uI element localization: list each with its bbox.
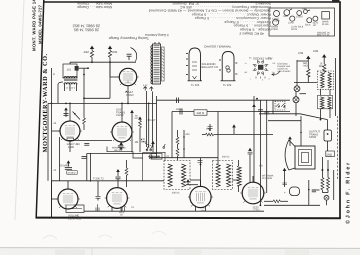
svg-text:COND: COND (271, 28, 278, 31)
wires down from T2 (146, 91, 148, 147)
bottom right wires (264, 204, 320, 206)
output transformer T6 (213, 161, 233, 190)
svg-text:CONV: CONV (273, 20, 280, 23)
svg-text:CONT: CONT (152, 156, 158, 159)
right vertical wires (253, 96, 255, 182)
capacitor C24 with arrow (248, 148, 252, 151)
svg-text:Mixer tube . . . Orange: Mixer tube . . . Orange (77, 1, 112, 5)
AVC dashed curve (141, 139, 152, 146)
chassis box (172, 111, 194, 113)
svg-text:SPKR: SPKR (309, 136, 316, 139)
svg-text:47 MFD: 47 MFD (68, 172, 76, 175)
transformer lead connectors (190, 179, 201, 181)
divider resistors (321, 178, 324, 190)
svg-text:GT/G: GT/G (254, 210, 261, 213)
trimmer capacitor C22 (281, 103, 285, 107)
svg-text:CONV: CONV (126, 94, 134, 97)
tube V3 12SK7 osc (112, 122, 132, 142)
svg-text:CHASSIS TERMINAL: CHASSIS TERMINAL (204, 45, 232, 49)
svg-text:209: 209 (201, 209, 206, 212)
arrow near x234 (232, 124, 236, 127)
box wire y100 (157, 99, 291, 101)
padder capacitor (64, 113, 69, 115)
arrow x153 (151, 141, 155, 144)
ballast tube terminal view (189, 48, 201, 81)
AVC bus y181 (52, 180, 165, 182)
svg-text:Speakers . . . . . . .: Speakers . . . . . . . . . . . . . . . .… (172, 1, 271, 5)
svg-text:TL 305: TL 305 (191, 84, 200, 87)
IF transformer T4 (318, 95, 333, 108)
pilot lamp pointer arrow (272, 71, 280, 75)
svg-text:GT: GT (120, 214, 124, 217)
frame top border (43, 1, 341, 3)
svg-text:456 KC: 456 KC (172, 191, 180, 194)
V3 bottom loop wire (107, 147, 143, 159)
svg-text:12SK7: 12SK7 (296, 15, 304, 18)
wire B+ feed horizontal (259, 113, 300, 115)
speaker top wires (300, 116, 302, 146)
svg-text:OSC: OSC (283, 15, 288, 18)
speaker SP (295, 146, 315, 169)
svg-text:Rectifier . . . . . . .: Rectifier . . . . . . . 5 Range (224, 20, 271, 24)
resistor right of V5 (125, 168, 128, 175)
specifications text block (rotated 180) (73, 1, 271, 40)
wire antenna lead down (57, 84, 59, 103)
svg-text:SOCKET VIEW: SOCKET VIEW (253, 57, 273, 61)
tube layout box (269, 8, 335, 36)
socket view (265, 69, 267, 71)
svg-text:MONT. WARD PAGE 14-7: MONT. WARD PAGE 14-7 (32, 0, 37, 51)
layout speaker square (322, 12, 330, 19)
cluster resistor mid (206, 133, 214, 136)
svg-text:©John F. Rider: ©John F. Rider (346, 161, 352, 224)
page corner mark (332, 0, 340, 3)
svg-text:+: + (284, 190, 286, 194)
volume pot box label (151, 154, 162, 160)
cap marks on bottom bus (96, 204, 99, 211)
pilot lamp P3 (324, 195, 329, 200)
layout tube 12SQ7 (290, 16, 295, 21)
tube V1 12SA7 converter (119, 68, 136, 85)
svg-text:30 OHMS: 30 OHMS (262, 177, 273, 180)
dial lamp P2 (293, 97, 299, 103)
svg-text:40M: 40M (84, 51, 90, 54)
svg-text:22M: 22M (313, 50, 319, 53)
volume control box under V4 (66, 205, 84, 212)
svg-text:rear chassis: rear chassis (278, 70, 292, 73)
svg-text:BALLAST CO: BALLAST CO (202, 66, 219, 69)
svg-text:▲: ▲ (125, 90, 128, 93)
tube V5 output (107, 188, 128, 209)
connecting wire y82.5 (294, 82, 318, 84)
tube V7 35Z5 rectifier (242, 182, 264, 204)
under V3 arrow and capacitor (119, 142, 123, 145)
junction dots (91, 61, 93, 63)
IF transformer T3 dashed box (317, 71, 333, 89)
long B- bus left (51, 68, 53, 217)
electrolytic cap box (324, 130, 331, 141)
svg-text:WT 250MA: WT 250MA (262, 175, 274, 178)
trimmer capacitor hatched (75, 66, 79, 71)
electrolytic can (290, 187, 300, 196)
svg-text:.005: .005 (185, 133, 190, 136)
T2 left winding (151, 46, 153, 84)
T2 top leads (154, 42, 156, 44)
arrow feed wire x132 (130, 110, 134, 113)
frame right border (339, 2, 341, 219)
wire from trimmer to right (79, 67, 88, 69)
svg-text:25V: 25V (259, 165, 264, 168)
wire at V2 bottom (67, 138, 74, 140)
boxed label speaker plug (326, 151, 335, 157)
layout dial lamp (304, 10, 308, 14)
svg-text:GT: GT (313, 24, 317, 27)
svg-text:Mixer tube . . . Orange: Mixer tube . . . Orange (77, 5, 112, 9)
svg-text:47M: 47M (298, 52, 304, 55)
svg-text:.05 MFD: .05 MFD (59, 165, 69, 168)
wire to speaker field (268, 120, 301, 122)
IF resistor R3 with arrow (306, 56, 310, 59)
svg-text:SW 105: SW 105 (114, 149, 123, 152)
trimmer capacitor pair dashed box (275, 101, 285, 110)
svg-text:12A8: 12A8 (288, 22, 294, 25)
resistor R2 (108, 51, 111, 59)
tube V6 (190, 186, 211, 207)
layout tube 12SK7 (284, 10, 290, 16)
svg-text:GT/G: GT/G (291, 28, 297, 31)
T2 bottom arrows (143, 87, 147, 91)
svg-text:Intermediate Frequency . .: Intermediate Frequency . . . . . . . . .… (180, 5, 271, 9)
tube V2 12SK7 IF (60, 121, 80, 141)
coil leads (64, 84, 66, 91)
oscillator coil windings (64, 77, 77, 79)
svg-text:2: 2 (262, 79, 263, 82)
T2 right winding bar (162, 47, 165, 81)
arrow junction on bus (64, 107, 68, 110)
slant wire to V2 grid (73, 112, 81, 120)
svg-text:PLUG: PLUG (322, 23, 329, 26)
second bus x48 (47, 103, 49, 180)
svg-text:40 KC Stages 2: 40 KC Stages 2 (239, 31, 264, 35)
svg-text:1: 1 (250, 78, 251, 81)
wire x148.7 (148, 103, 150, 147)
cap on grid lead (127, 53, 132, 55)
svg-text:#1232: #1232 (116, 114, 124, 117)
layout tube 12SA7 (274, 11, 280, 17)
grid cap curve to tube V1 (131, 48, 137, 62)
layout gang condenser (273, 19, 279, 25)
svg-text:TL 209: TL 209 (223, 84, 232, 87)
wires above AVC bus (86, 153, 88, 180)
svg-text:WG-727-14: WG-727-14 (317, 34, 330, 37)
svg-text:Selectivity — General Screen —: Selectivity — General Screen — Clo F.1 M… (149, 9, 271, 13)
resistor horizontal (273, 200, 280, 203)
svg-text:25M: 25M (112, 51, 118, 54)
svg-text:MMF: MMF (141, 141, 147, 144)
resistor R1 (90, 51, 93, 59)
svg-text:101: 101 (67, 69, 72, 72)
svg-text:CONTROL: CONTROL (68, 218, 82, 221)
wires right section (296, 60, 298, 86)
V2 left lead (52, 130, 61, 132)
svg-text:MΩ: MΩ (319, 65, 323, 68)
padder label 270MMF (141, 138, 150, 149)
dial lamp P1 (294, 86, 300, 92)
svg-text:Power Output . . . . . .: Power Output . . . . . . . . . . . . . .… (192, 13, 271, 17)
svg-text:Voltage . 5 Range: Voltage . 5 Range (240, 28, 271, 32)
main horizontal bus y103 (48, 102, 157, 104)
svg-text:A: A (53, 73, 55, 76)
layout tube 50L6 (307, 18, 312, 23)
solid right riser (335, 58, 337, 116)
svg-text:PLUG: PLUG (327, 155, 333, 158)
svg-text:3: 3 (269, 78, 270, 81)
grid wire bus (88, 61, 136, 63)
svg-text:4 12 3 12 6: 4 12 3 12 6 (64, 87, 76, 90)
boxed label 47MFD (67, 171, 77, 175)
wire from coil top up (69, 62, 71, 64)
wire V4 cathode to bus (52, 198, 59, 200)
svg-text:YL: YL (245, 62, 247, 65)
frame left border (36, 0, 44, 218)
V1 left lead (110, 76, 119, 78)
switch S1 contacts (143, 144, 166, 181)
frame bottom border (36, 217, 341, 220)
svg-text:T-300 72: T-300 72 (93, 178, 104, 181)
cap on y100 wire (176, 98, 178, 104)
dashed antenna run (336, 116, 338, 180)
wire lamp chain connector (297, 60, 308, 62)
tube interior lightening overlays (123, 71, 134, 84)
svg-text:456 KC: 456 KC (222, 156, 230, 159)
tube V4 12SQ7 (58, 189, 78, 209)
cap on box edge (179, 109, 181, 115)
resistors center (176, 137, 179, 144)
lead A to left (58, 82, 63, 84)
filament transformer T2 core (153, 44, 161, 84)
bus y157.5 (150, 157, 218, 159)
svg-text:5 BT: 5 BT (151, 119, 156, 122)
bottom bus (84, 210, 264, 212)
V1 plate lead (127, 86, 129, 104)
svg-text:6.3V: 6.3V (143, 84, 148, 87)
layout tube 35Z5 (313, 16, 318, 21)
cap on x86 upper (84, 142, 89, 144)
antenna coil assembly box (63, 64, 77, 78)
svg-text:240 Ω: 240 Ω (197, 111, 205, 115)
IF transformer T5 dashed box (164, 161, 190, 190)
svg-text:1485: 1485 (68, 146, 74, 149)
cap on x84 (82, 156, 87, 158)
svg-text:MODEL 04WG-727: MODEL 04WG-727 (38, 4, 43, 44)
rectifier tube terminal view (222, 52, 234, 82)
wire plate supply horizontal (214, 134, 273, 136)
IF resistor R4 with arrow (322, 54, 326, 57)
wire to rectifier V7 (249, 154, 251, 183)
svg-text:MΩ: MΩ (304, 65, 308, 68)
trimmer capacitor C21 (276, 103, 280, 107)
wire to divider R10 (321, 157, 323, 178)
IF output windings (237, 167, 241, 186)
layout trimmer (297, 11, 302, 16)
svg-text:500M: 500M (176, 108, 182, 111)
capacitor C12 drop wire (97, 181, 99, 196)
resistor on x140 with arrow (138, 116, 142, 119)
svg-text:Power Consumption . . . .: Power Consumption . . . . . . . . . . . … (194, 16, 271, 20)
svg-text:28 9951 74 B5: 28 9951 74 B5 (74, 28, 99, 33)
arrow cap above V5 (116, 169, 120, 172)
svg-text:50L6: 50L6 (305, 23, 311, 26)
V2 right pin resistor (83, 118, 86, 124)
svg-text:3 Gang Antenna: 3 Gang Antenna (145, 33, 169, 37)
wire R2 return (109, 62, 111, 98)
svg-text:Operation . . 5 Range: Operation . . 5 Range (233, 24, 271, 28)
AVC bus arrow cap cluster (67, 160, 71, 163)
svg-text:DIAL: DIAL (302, 8, 308, 11)
boxed label (194, 110, 207, 115)
svg-text:Tuning Frequency Range: Tuning Frequency Range (109, 36, 149, 40)
